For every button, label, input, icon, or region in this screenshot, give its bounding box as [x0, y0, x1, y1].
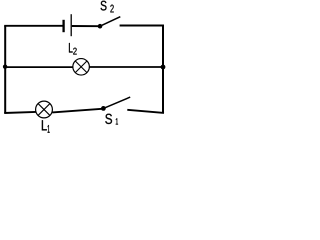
lamp L2 [73, 59, 90, 76]
wire: middle rail left segment [4, 66, 73, 68]
wire: right vertical [162, 25, 164, 113]
label S1 [105, 114, 118, 125]
junction node right [161, 65, 166, 70]
wire: top rail right segment [120, 25, 164, 27]
battery (cell) [64, 14, 72, 36]
wire: top rail left segment [4, 25, 62, 27]
switch S2 (open) [98, 17, 121, 29]
wire: bottom rail right segment [127, 110, 164, 113]
wire: left vertical [4, 26, 6, 113]
wire: bottom rail middle segment [52, 109, 102, 113]
wire: top rail middle segment [72, 25, 100, 27]
label L2 [69, 43, 77, 55]
lamp L1 [36, 101, 53, 118]
label L1 [42, 120, 50, 132]
junction node left [3, 65, 7, 69]
wire: middle rail right segment [89, 66, 164, 68]
label S2 [101, 1, 114, 13]
switch S1 (open) [101, 97, 130, 111]
wire: bottom rail left segment [4, 112, 36, 113]
